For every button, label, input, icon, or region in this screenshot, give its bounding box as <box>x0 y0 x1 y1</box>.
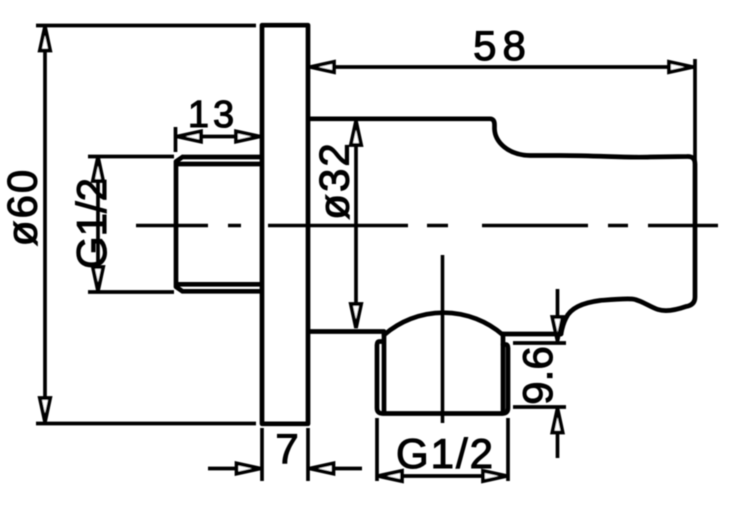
svg-text:G1/2: G1/2 <box>68 178 115 269</box>
svg-text:G1/2: G1/2 <box>396 430 495 477</box>
svg-text:58: 58 <box>473 22 532 69</box>
svg-text:9.6: 9.6 <box>514 346 561 404</box>
svg-text:ø32: ø32 <box>311 141 358 219</box>
svg-text:ø60: ø60 <box>0 168 46 246</box>
svg-text:13: 13 <box>188 94 238 136</box>
svg-text:7: 7 <box>275 425 298 472</box>
